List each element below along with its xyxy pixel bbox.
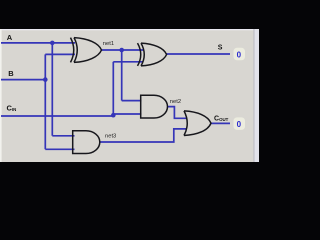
- value halo Cout: [234, 117, 246, 129]
- right window border line: [253, 29, 254, 162]
- junction A: [50, 41, 55, 46]
- wire XOR2 lower input stub: [113, 61, 143, 63]
- svg-text:net3: net3: [105, 134, 116, 140]
- wire AND net2 lower input stub: [113, 113, 141, 115]
- right border light strip: [255, 29, 259, 162]
- canvas left edge highlight: [0, 29, 2, 162]
- letterbox top bar: [0, 0, 259, 29]
- wire AND net3 lower input stub: [45, 148, 74, 150]
- wire net2 output jog: [168, 107, 187, 119]
- svg-text:0: 0: [237, 50, 242, 59]
- wire AND net3 upper input stub: [52, 135, 74, 137]
- wire net1 branch vertical to AND net2: [121, 50, 123, 101]
- xor gate U2 (sum): [138, 43, 167, 66]
- svg-text:net1: net1: [103, 41, 114, 47]
- svg-text:B: B: [8, 69, 14, 78]
- wire A horizontal: [1, 42, 75, 44]
- wire A branch vertical to AND net3: [51, 43, 53, 136]
- svg-text:net2: net2: [170, 99, 181, 105]
- value halo S: [234, 48, 246, 61]
- wire B branch vertical: [44, 54, 46, 149]
- and gate net2: [141, 95, 168, 118]
- wire Cout output: [211, 122, 231, 124]
- letterbox bottom bar: [0, 162, 259, 194]
- svg-text:A: A: [7, 33, 13, 42]
- or gate Cout: [184, 111, 211, 136]
- wire net3 output jog: [100, 129, 187, 142]
- wire S output: [167, 53, 231, 55]
- junction net1: [119, 48, 124, 53]
- wire B horizontal: [1, 79, 45, 81]
- junction B: [43, 77, 48, 82]
- canvas top edge highlight: [0, 29, 259, 30]
- svg-text:0: 0: [237, 120, 242, 129]
- xor gate net1: [71, 38, 102, 63]
- wire XOR net1 lower input stub: [45, 53, 75, 55]
- wire Cin horizontal: [1, 115, 113, 117]
- schematic canvas background: [0, 29, 259, 162]
- and gate net3: [73, 131, 100, 154]
- wire AND net2 upper input stub: [122, 100, 142, 102]
- svg-text:S: S: [218, 44, 223, 51]
- junction Cin: [111, 113, 116, 118]
- svg-text:COUT: COUT: [214, 116, 229, 123]
- wire Cin branch vertical: [112, 62, 114, 116]
- wire net1 from XOR1 to XOR2: [101, 49, 143, 51]
